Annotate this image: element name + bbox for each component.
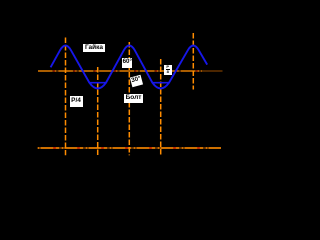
- center line orange dashes: [38, 70, 202, 72]
- label 60 deg: [122, 58, 132, 68]
- extension line peak1 x=65.5: [65, 38, 67, 156]
- root truncation chord trough2: [152, 82, 169, 84]
- label 30 deg: [130, 75, 143, 88]
- extension line peak3 x=193.3: [192, 33, 194, 90]
- bottom dimension line orange dashes: [38, 147, 221, 149]
- label P/4: [70, 96, 83, 107]
- extension line trough2 x=160.7: [160, 59, 162, 156]
- root truncation chord trough1: [89, 82, 106, 84]
- bottom dimension line red dots: [38, 147, 221, 149]
- extension line peak2 x=129.3: [128, 42, 130, 155]
- bottom dimension line base: [38, 147, 221, 149]
- center line red dots: [38, 70, 202, 72]
- label Bolt: [124, 94, 143, 103]
- extension line trough1 x=97.7: [97, 67, 99, 156]
- label Gaika (nut): [83, 44, 105, 52]
- label P/8 fraction: [164, 65, 172, 75]
- center line (pitch line) base: [38, 70, 223, 72]
- thread profile wave: [51, 46, 208, 89]
